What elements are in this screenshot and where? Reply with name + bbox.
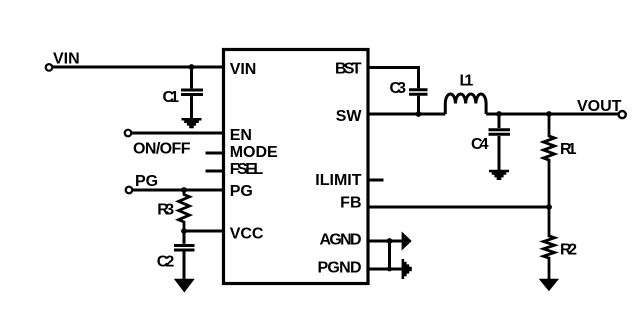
pin stub PGND [368,268,402,271]
svg-text:PGND: PGND [318,259,362,276]
svg-text:PG: PG [135,173,158,190]
capacitor C3 plates [409,88,428,91]
junction R3 tap [181,187,187,193]
svg-text:FB: FB [340,195,361,212]
junction FB/R2 [546,204,552,210]
svg-text:VIN: VIN [53,51,80,68]
capacitor C1 leads [190,67,193,88]
junction C1 tap [189,64,195,70]
junction AGND tie [387,238,393,244]
capacitor C4 leads [498,114,501,128]
svg-text:C2: C2 [157,254,175,271]
junction C2 tap [181,228,187,234]
wire BST [368,66,420,69]
wire VOUT [486,113,619,116]
svg-text:C1: C1 [163,89,180,106]
pin stub FSEL [206,170,224,173]
terminal ON/OFF [125,130,132,137]
capacitor C1 plates [181,89,203,92]
svg-text:VIN: VIN [230,61,257,78]
resistor R1 [544,114,555,207]
svg-text:R2: R2 [560,242,577,259]
svg-text:ON/OFF: ON/OFF [133,141,191,158]
junction C3/SW [416,111,422,117]
wire AGND-PGND tie [388,241,391,269]
ground (C2) [174,279,195,293]
capacitor C2 plates [174,244,195,247]
pin stub MODE [206,152,224,155]
IC U1 body [224,50,369,284]
ground (PGND) [402,259,412,279]
terminal VOUT [619,111,626,118]
ground (AGND) [402,231,412,250]
svg-text:C3: C3 [390,80,407,97]
wire VIN input [53,66,224,69]
ground (C1) [182,118,202,128]
svg-text:PG: PG [230,183,253,200]
svg-text:L1: L1 [460,73,474,90]
svg-text:VCC: VCC [230,226,264,243]
pin stub AGND [368,240,402,243]
svg-text:BST: BST [335,61,362,78]
wire VCC [184,230,224,233]
svg-text:AGND: AGND [320,231,362,248]
capacitor C2 leads [183,231,186,244]
svg-text:ILIMIT: ILIMIT [315,172,361,189]
wire FB [368,206,549,209]
ground (C4) [489,170,509,180]
svg-text:C4: C4 [471,136,489,153]
svg-text:R1: R1 [560,141,577,158]
junction C4 tap [496,111,502,117]
svg-text:FSEL: FSEL [230,161,264,178]
terminal VIN [46,64,53,71]
wire SW [368,113,445,116]
wire PG input [133,189,224,192]
svg-text:EN: EN [230,127,252,144]
resistor R2 [544,207,555,279]
capacitor C4 plates [489,128,511,131]
resistor R3 [179,190,190,231]
svg-text:MODE: MODE [230,144,278,161]
junction R1 tap [546,111,552,117]
ground (R2) [539,279,559,291]
svg-text:SW: SW [336,108,363,125]
svg-text:R3: R3 [157,201,174,218]
pin stub ILIMIT [368,179,384,182]
wire EN (ON/OFF) [132,132,224,135]
svg-text:VOUT: VOUT [577,98,622,115]
inductor L1 [445,94,486,114]
capacitor C3 leads [417,68,420,89]
junction PGND tie [387,267,392,272]
terminal PG [126,187,133,194]
